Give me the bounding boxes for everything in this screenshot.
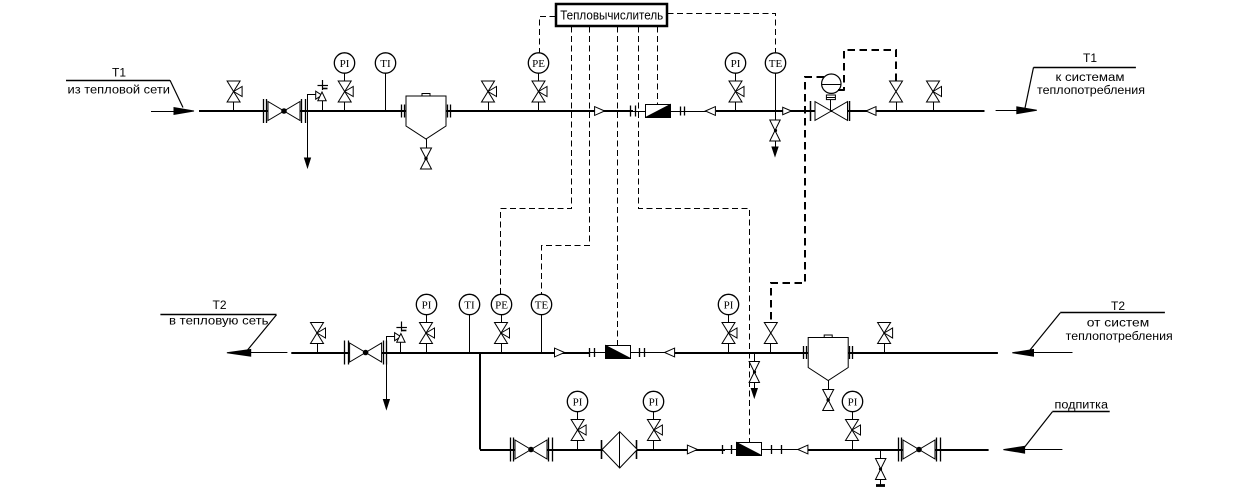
svg-text:T2: T2: [1111, 299, 1125, 313]
drain valve under TE1 tap: [775, 111, 777, 120]
flow meter 2: [606, 346, 631, 359]
flow meter 1: [646, 105, 671, 118]
ball valve B4 on pipe3: [898, 438, 900, 462]
flanges after flow meter 2: [639, 348, 641, 357]
gauge TE on pipe1: [775, 73, 777, 111]
svg-text:PI: PI: [848, 396, 858, 408]
wire: signal line heat calculator to flow meter 1: [657, 27, 659, 105]
svg-text:Тепловычислитель: Тепловычислитель: [560, 8, 663, 23]
wire: pipe T2 meter section (thin): [589, 352, 665, 354]
gauge PE on pipe2: [501, 315, 503, 323]
impulse tap valve on pipe1: [890, 81, 903, 102]
flow meter 3: [737, 443, 762, 456]
wire: pipe T1 supply main (thick segments): [199, 110, 633, 112]
wire: signal line heat calculator to TE1: [668, 14, 776, 54]
label arrow: T1 outflow: [996, 110, 1020, 112]
gauge PI on pipe1 right: [735, 73, 737, 81]
label leader underline: T2 consumers: [1060, 312, 1165, 314]
gauge PI on pipe2 left: [426, 315, 428, 323]
heat calculator box: [556, 4, 667, 26]
gauge TI on pipe1: [385, 73, 387, 111]
isolation valve under PI pipe3 right: [846, 420, 861, 441]
svg-text:T1: T1: [112, 66, 126, 80]
isolation valve under PI pipe3 mid: [647, 420, 662, 441]
wire: signal line heat calculator to TE2: [542, 27, 590, 295]
wire: impulse line regulator actuator to pipe2 tap: [771, 77, 824, 323]
valve V3 on pipe1 right: [927, 81, 942, 102]
wire: branch from T2 down to makeup line: [479, 353, 481, 450]
label leader underline: T1 supply: [66, 80, 170, 82]
isolation valve under PE pipe2: [495, 323, 510, 344]
svg-text:TE: TE: [769, 58, 783, 70]
wire: signal line heat calculator to PE2: [501, 27, 572, 295]
wire: pipe podpitka main (thick segments): [480, 449, 725, 451]
ball valve B2 on pipe2: [344, 341, 346, 365]
svg-text:T1: T1: [1083, 51, 1097, 65]
drain with cap on pipe3: [880, 450, 882, 459]
drain valve on pipe2: [754, 353, 756, 362]
svg-text:PI: PI: [340, 58, 350, 70]
svg-text:TI: TI: [464, 299, 475, 311]
svg-text:TE: TE: [535, 299, 549, 311]
wire: impulse line pipe1 tap to regulator actuator: [844, 50, 896, 90]
flanges after flow meter 1: [680, 107, 682, 116]
regulator valve flanges: [810, 101, 812, 121]
svg-text:PI: PI: [422, 299, 432, 311]
svg-text:к системам: к системам: [1056, 72, 1125, 84]
gauge PI on pipe3 right: [852, 412, 854, 420]
reducer after flow meter 2: [665, 348, 675, 357]
reducer after flow meter 1: [705, 107, 715, 116]
gauge PI on pipe3 left: [577, 412, 579, 420]
svg-text:PI: PI: [573, 396, 583, 408]
wire: pipe podpitka meter section (thin): [725, 449, 798, 451]
label leader underline: podpitka: [1052, 411, 1109, 413]
vent and drain assembly on pipe1: [308, 95, 323, 112]
gauge PI on pipe3 mid: [653, 412, 655, 420]
svg-text:из тепловой сети: из тепловой сети: [68, 84, 171, 96]
wire: pipe T1 meter section (thin): [633, 111, 706, 113]
isolation valve under PI pipe1 left: [338, 81, 353, 102]
wire: signal line heat calculator to flow meter 2: [617, 27, 619, 346]
wire: pipe T2 return main (thick segments): [291, 352, 589, 354]
reducer after flow meter 3: [798, 445, 808, 454]
strainer on pipe1: [401, 105, 403, 118]
impulse tap valve on pipe2: [764, 323, 777, 344]
svg-text:от систем: от систем: [1087, 318, 1150, 330]
reducer before flow meter 3: [687, 445, 697, 454]
flanges after flow meter 3: [771, 445, 773, 454]
vent and drain assembly on pipe2: [387, 337, 401, 353]
regulator actuator diaphragm head: [822, 74, 841, 93]
gauge PI on pipe2 right: [728, 315, 730, 323]
label leader underline: T1 consumers: [1034, 67, 1136, 69]
flow arrow on pipe1 before regulator: [866, 107, 876, 116]
strainer on pipe2: [803, 346, 805, 359]
gauge TI on pipe2: [469, 315, 471, 353]
svg-text:TI: TI: [380, 58, 391, 70]
label arrow: T2 inflow: [1030, 352, 1073, 354]
svg-text:в тепловую сеть: в тепловую сеть: [169, 316, 269, 328]
flanges before flow meter 3: [722, 445, 724, 454]
regulator actuator stem and spring: [830, 100, 832, 111]
svg-text:подпитка: подпитка: [1055, 399, 1109, 411]
svg-text:PE: PE: [495, 299, 508, 311]
flanges before flow meter 2: [589, 348, 591, 357]
regulator valve body: [815, 102, 831, 121]
flow arrow on pipe1 after TE: [783, 107, 792, 114]
label arrow: podpitka inflow: [1020, 449, 1062, 451]
isolation valve under PI pipe3 left: [571, 420, 586, 441]
svg-text:PI: PI: [724, 299, 734, 311]
wire: signal line heat calculator to flow meter 3: [639, 27, 750, 443]
valve V2 on pipe1: [482, 81, 497, 102]
isolation valve under PI pipe1 right: [729, 81, 744, 102]
ball valve B3 on pipe3: [510, 438, 512, 462]
reducer before flow meter 1: [595, 107, 605, 116]
label arrow: T2 outflow: [246, 352, 287, 354]
isolation valve under PI pipe2 left: [420, 323, 435, 344]
isolation valve under PI pipe2 right: [722, 323, 737, 344]
svg-text:PI: PI: [731, 58, 741, 70]
svg-text:T2: T2: [212, 298, 226, 312]
ball valve B1 on pipe1: [263, 99, 265, 123]
svg-text:теплопотребления: теплопотребления: [1066, 331, 1173, 343]
gauge TE on pipe2: [541, 315, 543, 353]
gauge PI on pipe1 left: [344, 73, 346, 81]
reducer before flow meter 2: [555, 348, 565, 357]
svg-text:PI: PI: [649, 396, 659, 408]
valve V1 on pipe1: [227, 81, 242, 102]
label leader underline: T2 return: [160, 314, 276, 316]
filter on pipe3: [601, 440, 603, 459]
valve V5 on pipe2: [878, 323, 893, 344]
gauge PE on pipe1: [538, 73, 540, 81]
wire: signal line PE1 to heat calculator: [540, 17, 556, 54]
svg-text:PE: PE: [532, 58, 545, 70]
flanges before flow meter 1: [630, 106, 632, 117]
valve V4 on pipe2: [311, 323, 326, 344]
isolation valve under PE pipe1: [532, 81, 547, 102]
svg-text:теплопотребления: теплопотребления: [1037, 85, 1145, 97]
label arrow: T1 inflow: [151, 111, 178, 113]
